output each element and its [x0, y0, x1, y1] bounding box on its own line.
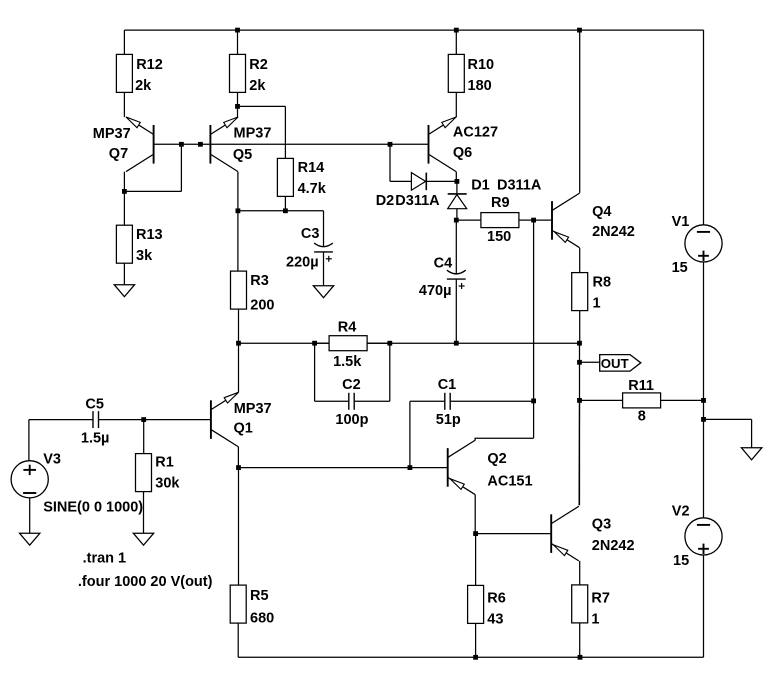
junction mid rail / R4 left / C2 [312, 341, 317, 346]
svg-text:R7: R7 [591, 591, 610, 607]
label transistor Q1 [234, 401, 272, 437]
wire V1 to V2 [703, 262, 705, 518]
svg-text:R2: R2 [249, 57, 268, 73]
wire D2 cathode to node [426, 180, 457, 182]
svg-text:2N242: 2N242 [592, 538, 635, 554]
transistor Q2 [448, 440, 476, 495]
wire Q7 collector to R13 [123, 191, 125, 225]
junction top rail / R2 [235, 28, 240, 33]
wire V3 to ground [29, 498, 31, 533]
transistor Q7 [126, 117, 154, 172]
text .tran directive [83, 551, 127, 567]
wire top rail to R12 [123, 30, 125, 54]
svg-text:D311A: D311A [395, 193, 440, 209]
svg-text:30k: 30k [155, 476, 180, 492]
svg-text:.tran 1: .tran 1 [83, 551, 127, 567]
wire collector-base tie vertical [180, 144, 182, 191]
svg-text:R1: R1 [155, 454, 174, 470]
diode D2 [411, 173, 426, 191]
wire ground stub drop [751, 419, 753, 447]
resistor R4 [329, 336, 367, 351]
wire Q4 collector riser [579, 30, 581, 193]
wire top rail to R2 [237, 30, 239, 54]
wire R11 to V rail [661, 399, 704, 401]
label diode D1 [471, 177, 542, 193]
wire Q6 collector drop [455, 172, 457, 182]
capacitor C2 [349, 393, 354, 410]
junction R14 / row [283, 208, 288, 213]
diode D1 [448, 194, 467, 209]
ground C3 [313, 286, 333, 298]
svg-text:200: 200 [250, 298, 274, 314]
svg-text:V2: V2 [672, 504, 690, 520]
wire base bus Q7/Q5/Q6 [154, 143, 429, 145]
svg-text:D1: D1 [471, 177, 490, 193]
voltage source V3 [11, 461, 48, 498]
label resistor R9 [487, 195, 511, 245]
svg-text:R12: R12 [136, 57, 163, 73]
wire C1 riser [533, 220, 535, 401]
svg-text:R6: R6 [487, 591, 506, 607]
wire R2 to Q5 emitter [237, 92, 239, 117]
flag OUT [600, 355, 641, 372]
transistor Q5 [210, 117, 238, 172]
label capacitor C4 [419, 256, 452, 299]
label resistor R11 [628, 378, 654, 424]
label resistor R3 [250, 273, 274, 314]
wire Q1 collector to Q2 base [239, 467, 448, 469]
resistor R5 [230, 585, 246, 623]
resistor R14 [277, 158, 293, 196]
svg-text:470µ: 470µ [419, 283, 452, 299]
label resistor R2 [249, 57, 268, 94]
wire R14 tap vertical [284, 106, 286, 158]
label transistor Q2 [487, 451, 532, 489]
junction base bus B [198, 142, 203, 147]
svg-text:Q6: Q6 [453, 145, 472, 161]
junction R9 / Q4 base / C1 riser [531, 218, 536, 223]
svg-text:2k: 2k [135, 78, 152, 94]
label resistor R10 [468, 57, 495, 94]
wire to Q4 base [534, 219, 552, 221]
svg-text:.four 1000 20 V(out): .four 1000 20 V(out) [78, 574, 213, 590]
capacitor C3 [314, 243, 333, 262]
svg-text:MP37: MP37 [234, 401, 272, 417]
resistor R10 [448, 54, 464, 92]
svg-text:1: 1 [593, 296, 601, 312]
junction bottom rail / R6 [473, 655, 478, 660]
svg-text:AC151: AC151 [487, 473, 532, 489]
label transistor Q6 [453, 124, 498, 161]
resistor R2 [230, 54, 246, 92]
label transistor Q5 [233, 125, 271, 163]
svg-text:43: 43 [487, 612, 503, 628]
wire R13 to ground [123, 263, 125, 285]
svg-text:Q7: Q7 [109, 146, 128, 162]
transistor Q6 [429, 117, 457, 172]
wire C2 left [315, 400, 349, 402]
wire OUT column [579, 343, 581, 505]
label voltage source V3 [43, 452, 143, 516]
junction OUT flag tap [577, 360, 582, 365]
voltage source V1 [685, 225, 722, 262]
svg-text:MP37: MP37 [234, 125, 272, 141]
wire R12 to Q7 emitter [123, 92, 125, 117]
ground V3 [20, 533, 40, 545]
ground R13 [114, 285, 134, 297]
svg-text:OUT: OUT [601, 356, 629, 371]
wire R6 to bottom rail [475, 623, 477, 657]
svg-text:R8: R8 [593, 275, 612, 291]
wire row to C3 [323, 211, 325, 246]
capacitor C5 [93, 411, 99, 428]
transistor Q3 [551, 506, 579, 561]
wire R10 to Q6 emitter [455, 92, 457, 117]
svg-text:4.7k: 4.7k [298, 181, 327, 197]
label resistor R13 [136, 227, 163, 264]
capacitor C1 [445, 393, 450, 410]
wire Q5 collector node row [238, 210, 324, 212]
wire bottom rail [238, 656, 703, 658]
wire node to R9 [456, 219, 480, 221]
wire R8 to mid rail [579, 311, 581, 344]
wire Q5 collector drop [237, 172, 239, 211]
wire R7 to bottom rail [579, 623, 581, 657]
wire Q3 base row [476, 533, 552, 535]
wire C5 to V3 [29, 419, 93, 421]
wire node to D1 cathode [456, 181, 458, 194]
svg-text:1.5µ: 1.5µ [81, 430, 110, 446]
resistor R8 [572, 273, 588, 311]
junction base bus / D2 anode [388, 142, 393, 147]
wire V3 top [28, 420, 30, 461]
label transistor Q3 [592, 517, 635, 554]
wire mid rail to R4 [315, 342, 330, 344]
resistor R7 [572, 585, 588, 623]
svg-text:R5: R5 [250, 588, 269, 604]
wire C1 right [450, 400, 533, 402]
label capacitor C2 [335, 377, 368, 428]
wire Q3 collector riser [578, 400, 580, 505]
wire node to R3 [237, 211, 239, 271]
junction Q7 collector / R13 [122, 189, 127, 194]
junction top rail / R10 [454, 28, 459, 33]
svg-text:51p: 51p [436, 412, 461, 428]
wire R1 to ground [143, 492, 145, 534]
wire Q7 collector drop [123, 172, 125, 192]
junction ground stub / V rail [701, 417, 706, 422]
junction bottom rail / R7 [578, 655, 583, 660]
label resistor R12 [135, 57, 163, 94]
text .four directive [78, 574, 213, 590]
wire C4 to mid rail [455, 279, 457, 343]
wire C1 left drop [409, 401, 411, 467]
wire R14 tap horizontal [238, 105, 286, 107]
wire top supply rail [124, 29, 703, 31]
svg-text:R10: R10 [468, 57, 495, 73]
svg-text:180: 180 [468, 78, 492, 94]
junction Q2 emitter / Q3 base / R6 [473, 531, 478, 536]
svg-text:AC127: AC127 [453, 124, 498, 140]
svg-text:C1: C1 [438, 377, 457, 393]
wire Q2 emitter drop [474, 495, 476, 534]
svg-text:220µ: 220µ [286, 255, 319, 271]
svg-text:R13: R13 [136, 227, 163, 243]
label transistor Q4 [592, 204, 635, 240]
wire Q1 emitter riser [238, 343, 240, 392]
resistor R13 [116, 225, 132, 263]
junction mid rail / R8 / OUT column [577, 341, 582, 346]
svg-text:SINE(0 0 1000): SINE(0 0 1000) [43, 499, 143, 515]
wire R14 to node [284, 196, 286, 210]
svg-text:Q1: Q1 [234, 421, 253, 437]
junction mid rail / R4 right / C2 [387, 341, 392, 346]
wire ground stub horizontal [704, 418, 752, 420]
junction Q1 base / R1 [141, 417, 146, 422]
resistor R6 [468, 585, 484, 623]
wire Q6 emitter riser [455, 116, 457, 118]
junction Q1 collector / R5 [236, 465, 241, 470]
svg-text:Q4: Q4 [592, 204, 611, 220]
wire Q2 collector riser [533, 401, 535, 438]
wire Q3 emitter to R7 [579, 561, 581, 585]
svg-text:V1: V1 [672, 214, 690, 230]
junction D1 / R9 / C4 [454, 218, 459, 223]
label capacitor C3 [286, 226, 319, 271]
svg-text:V3: V3 [43, 452, 61, 468]
wire top rail to R10 [455, 30, 457, 54]
junction C1 drop / Q2 base [408, 465, 413, 470]
junction mid rail / R3 / Q1 emitter [236, 341, 241, 346]
svg-text:R11: R11 [628, 378, 654, 394]
svg-text:Q3: Q3 [592, 517, 611, 533]
svg-text:R3: R3 [250, 273, 269, 289]
svg-text:C5: C5 [85, 396, 104, 412]
wire C2 right [354, 400, 390, 402]
junction R11 tap [577, 398, 582, 403]
capacitor C4 [447, 270, 466, 289]
wire node to C4 [455, 220, 457, 273]
wire C3 to ground [323, 252, 325, 286]
wire C2 right riser [389, 343, 391, 401]
svg-text:8: 8 [638, 408, 646, 424]
svg-text:MP37: MP37 [93, 126, 131, 142]
label resistor R5 [250, 588, 274, 626]
svg-text:D2: D2 [376, 193, 395, 209]
transistor Q4 [552, 193, 580, 248]
wire top rail to V1 [703, 30, 705, 225]
svg-text:R9: R9 [491, 195, 510, 211]
wire OUT stub [580, 361, 600, 363]
svg-text:C3: C3 [301, 226, 320, 242]
svg-text:15: 15 [673, 553, 689, 569]
label transistor Q7 [93, 126, 131, 162]
label voltage source V2 [672, 504, 690, 570]
svg-text:15: 15 [672, 260, 688, 276]
resistor R3 [231, 271, 247, 309]
label capacitor C1 [436, 377, 461, 428]
resistor R9 [481, 213, 519, 228]
wire Q4 emitter to R8 [579, 248, 581, 273]
wire R5 to bottom rail [237, 623, 239, 657]
label voltage source V1 [672, 214, 690, 276]
label resistor R6 [487, 591, 506, 628]
wire R3 to mid rail [238, 309, 240, 343]
ground R1 [133, 533, 153, 545]
wire node to R6 [475, 534, 477, 586]
wire C2 left drop [314, 343, 316, 401]
junction mid rail / C4 [454, 341, 459, 346]
wire Q2 collector horizontal [475, 438, 534, 440]
label resistor R4 [333, 320, 362, 371]
junction R11 / V rail [701, 398, 706, 403]
svg-text:D311A: D311A [497, 177, 542, 193]
label resistor R8 [593, 275, 612, 312]
svg-text:R14: R14 [298, 160, 325, 176]
svg-text:680: 680 [250, 610, 274, 626]
label diode D2 [376, 193, 440, 209]
wire D1 anode to R9 node [456, 209, 458, 220]
svg-text:2k: 2k [249, 78, 266, 94]
label resistor R1 [155, 454, 180, 491]
label resistor R7 [591, 591, 610, 628]
wire C1 left [410, 400, 445, 402]
junction D2 / Q6 collector / D1 [455, 179, 460, 184]
junction C1 / Q2 collector riser [531, 399, 536, 404]
resistor R1 [136, 454, 152, 492]
junction Q5 collector / row [236, 208, 241, 213]
svg-text:150: 150 [487, 229, 511, 245]
wire D2 anode horizontal [390, 180, 411, 182]
wire Q1 collector to R5 [238, 468, 240, 585]
transistor Q1 [211, 392, 239, 447]
svg-text:R4: R4 [338, 320, 357, 336]
wire Q1 base row [99, 419, 211, 421]
junction R2 / R14 tap [235, 104, 240, 109]
wire R1 top [143, 420, 145, 454]
resistor R12 [116, 54, 132, 92]
svg-text:Q5: Q5 [233, 147, 252, 163]
wire OUT column to R11 [580, 399, 623, 401]
svg-text:Q2: Q2 [487, 451, 506, 467]
label flag OUT [601, 356, 629, 371]
wire collector-base tie horizontal [124, 190, 181, 192]
svg-text:1.5k: 1.5k [333, 354, 362, 370]
svg-text:C2: C2 [342, 377, 361, 393]
label resistor R14 [298, 160, 327, 197]
voltage source V2 [685, 518, 722, 555]
junction base bus A [179, 142, 184, 147]
wire Q1 collector drop [237, 447, 239, 468]
wire D2 anode drop [389, 144, 391, 181]
wire V2 to bottom rail [703, 555, 705, 657]
wire R4 to mid rail [367, 342, 390, 344]
svg-text:100p: 100p [335, 412, 368, 428]
label capacitor C5 [81, 396, 110, 446]
wire R9 to Q4 base node [519, 219, 534, 221]
svg-text:3k: 3k [136, 248, 153, 264]
resistor R11 [623, 393, 661, 408]
junction top rail / Q4 collector [577, 28, 582, 33]
ground output reference [741, 448, 761, 460]
wire mid rail [239, 342, 580, 344]
svg-text:C4: C4 [434, 256, 453, 272]
svg-text:1: 1 [591, 612, 599, 628]
svg-text:2N242: 2N242 [592, 224, 635, 240]
